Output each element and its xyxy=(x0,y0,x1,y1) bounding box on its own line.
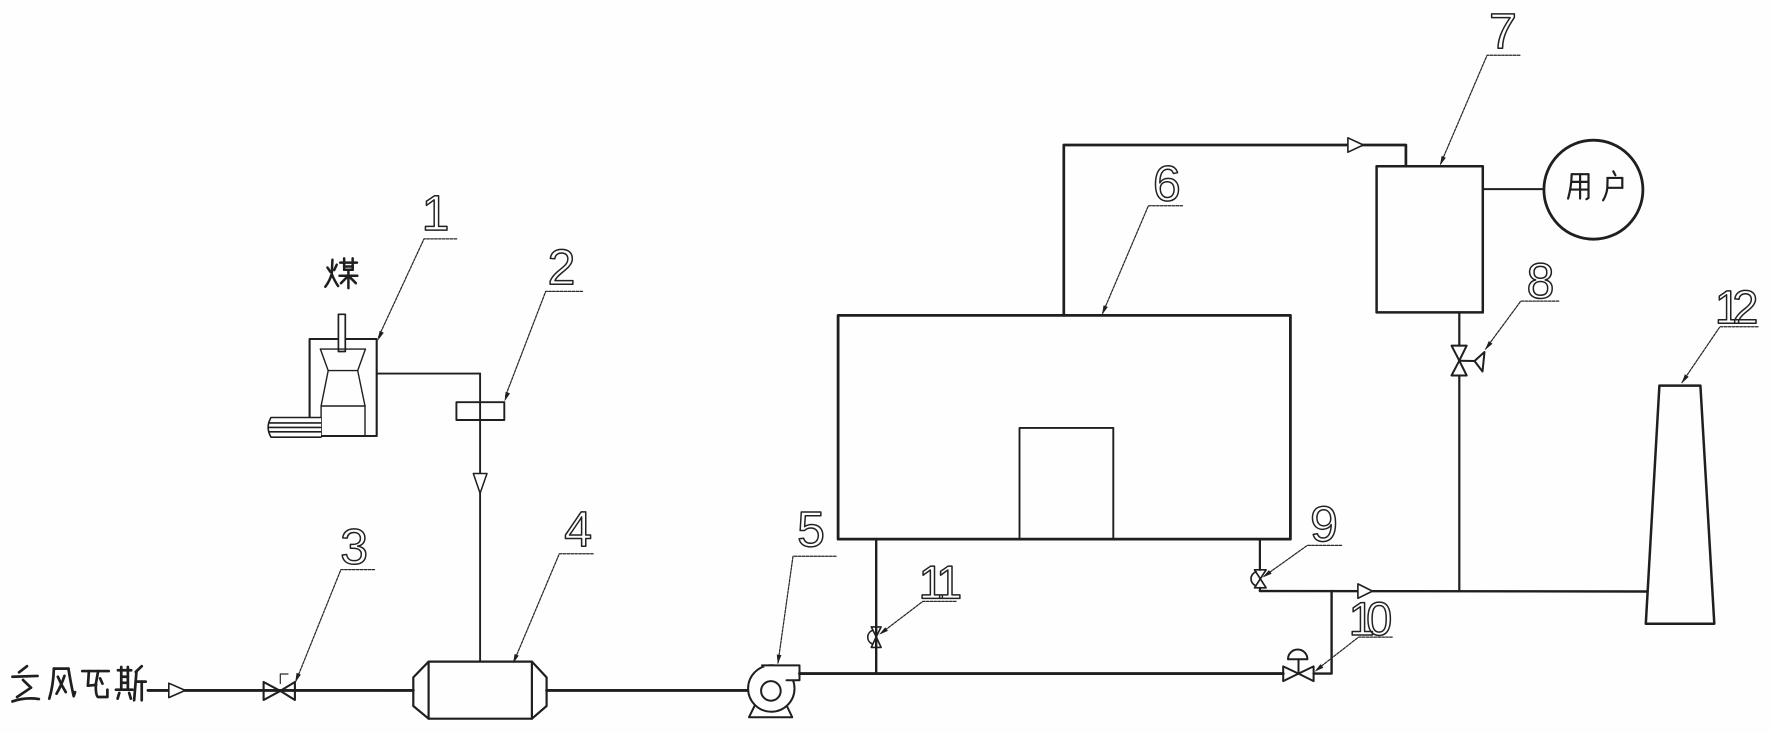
boiler 6 inner chamber xyxy=(1020,428,1114,539)
wire: boiler 6 bottom right drop through valve 9 xyxy=(1259,539,1261,591)
leader arrowhead 6 xyxy=(1102,305,1108,315)
chimney 12 xyxy=(1646,386,1715,624)
wire: blower outlet to valve 10 xyxy=(800,672,1284,675)
numeral 2 xyxy=(550,249,573,284)
leader arrowhead 2 xyxy=(505,392,511,402)
char 斯 xyxy=(116,666,146,700)
dryer 2 xyxy=(456,402,504,420)
numeral 4 xyxy=(565,512,590,546)
leader line for label 9 xyxy=(1265,545,1342,576)
flow arrow on inlet line xyxy=(169,683,185,697)
leader line for label 10 xyxy=(1317,637,1392,669)
numeral 9 xyxy=(1312,506,1335,541)
wire: unit1 to dryer 2 horizontal xyxy=(377,373,480,375)
coal hopper unit 1 inner hopper xyxy=(320,349,365,436)
leader arrowhead 5 xyxy=(777,655,782,665)
leader line for label 4 xyxy=(514,554,594,663)
heat exchanger 7 xyxy=(1377,166,1483,312)
leader line for label 3 xyxy=(296,570,375,681)
leader arrowhead 8 xyxy=(1485,341,1493,350)
wire: heat exchanger 7 bottom drop through valve 8 xyxy=(1458,312,1460,591)
leader arrowhead 12 xyxy=(1682,374,1689,383)
numeral 1 xyxy=(425,196,447,230)
blower 5 hub xyxy=(761,681,781,701)
wire: vessel 4 to blower 5 xyxy=(547,689,749,692)
numeral 7 xyxy=(1492,14,1515,48)
wire: heat exchanger 7 to user circle xyxy=(1483,188,1542,190)
numeral 5 xyxy=(799,512,823,547)
numerals 10 xyxy=(1352,602,1390,635)
char 户 xyxy=(1603,171,1622,200)
blower 5 outlet duct xyxy=(762,665,800,680)
numeral 8 xyxy=(1529,263,1552,298)
wire: vertical drop from 373.6 to vessel 4 top xyxy=(479,374,481,662)
numeral 6 xyxy=(1155,166,1178,201)
valve 10 xyxy=(1283,650,1313,682)
blower 5 casing xyxy=(748,665,794,711)
char 风 xyxy=(49,669,75,699)
valve 3 top bracket xyxy=(280,674,288,684)
numerals 11 xyxy=(922,566,960,598)
leader line for label 12 xyxy=(1682,327,1758,383)
label 乏风瓦斯 xyxy=(12,666,145,701)
char 乏 xyxy=(12,666,38,701)
wire: VAM inlet line xyxy=(148,689,413,692)
coal hopper unit 1 top pipe xyxy=(338,314,345,351)
leader arrowhead 3 xyxy=(295,673,301,683)
blower 5 base xyxy=(749,701,792,717)
wire: boiler 6 bottom left drop xyxy=(875,539,877,674)
flow arrow on flue line xyxy=(1358,584,1373,598)
boiler 6 xyxy=(838,315,1290,539)
label 煤 (coal) xyxy=(325,258,357,288)
wire: bypass branch down to valve 10 xyxy=(1314,591,1332,674)
leader line for label 2 xyxy=(506,291,583,396)
user circle xyxy=(1544,140,1643,239)
leader line for label 7 xyxy=(1440,55,1520,164)
valve 11 xyxy=(868,627,881,648)
leader line for label 11 xyxy=(882,601,956,632)
vessel 4 (mixer) xyxy=(413,662,546,719)
valve 9 xyxy=(1251,570,1266,588)
char 用 xyxy=(1568,174,1588,199)
valve 3 xyxy=(264,682,295,700)
leader line for label 5 xyxy=(778,556,836,663)
coal hopper unit 1 outer box xyxy=(310,339,377,436)
numeral 3 xyxy=(342,529,366,564)
leader arrowhead 7 xyxy=(1440,156,1446,166)
char 瓦 xyxy=(82,671,108,697)
label 用户 (user) xyxy=(1568,171,1622,200)
wire: flue line to chimney xyxy=(1260,590,1647,593)
leader arrowhead 1 xyxy=(378,331,384,341)
leader line for label 1 xyxy=(379,239,457,337)
leader arrowhead 10 xyxy=(1315,664,1324,672)
leader arrowhead 9 xyxy=(1263,570,1272,577)
wire: boiler top riser and transfer line to heat exchanger 7 xyxy=(1064,145,1406,315)
flow arrow on drop line xyxy=(473,474,487,494)
leader line for label 6 xyxy=(1102,206,1182,314)
leader arrowhead 11 xyxy=(879,627,888,635)
leader arrowhead 4 xyxy=(513,654,519,664)
leader line for label 8 xyxy=(1486,301,1559,349)
flow arrow on transfer line xyxy=(1348,138,1363,152)
screw feeder of unit 1 xyxy=(268,418,321,438)
valve 8 xyxy=(1452,346,1485,376)
numerals 12 xyxy=(1718,290,1756,323)
